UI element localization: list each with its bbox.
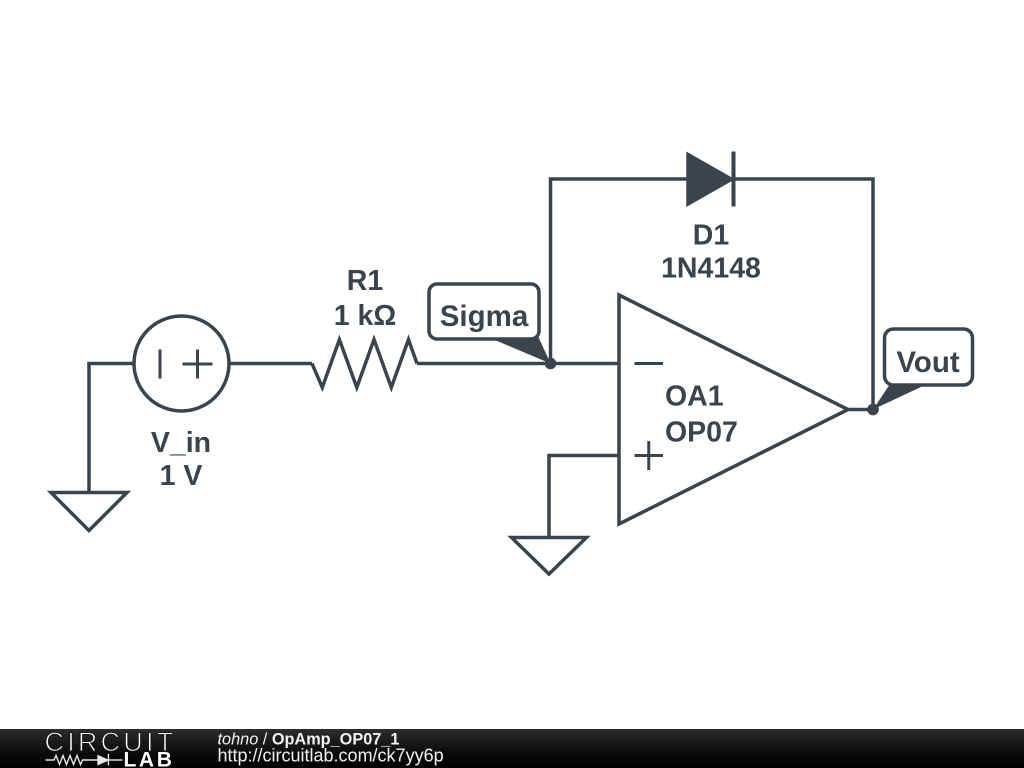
svg-text:http://circuitlab.com/ck7yy6p: http://circuitlab.com/ck7yy6p bbox=[218, 746, 444, 766]
svg-text:LAB: LAB bbox=[124, 749, 175, 768]
